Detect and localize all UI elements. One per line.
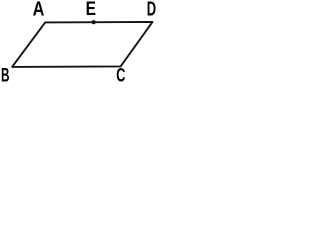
svg-text:D: D bbox=[147, 0, 156, 20]
svg-text:C: C bbox=[116, 65, 125, 82]
svg-text:E: E bbox=[86, 0, 96, 19]
svg-text:A: A bbox=[33, 0, 45, 20]
svg-text:B: B bbox=[1, 65, 10, 82]
background bbox=[0, 0, 164, 82]
parallelogram ABCD outline bbox=[12, 22, 152, 67]
point E dot on segment AD bbox=[92, 20, 96, 24]
